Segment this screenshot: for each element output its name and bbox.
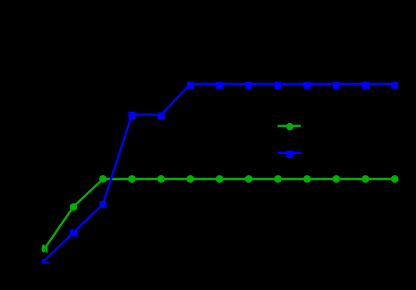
blue marker P9 [304,82,311,89]
green marker P8 [274,175,282,183]
blue marker P6 [216,82,223,89]
legend green marker [286,123,293,130]
green marker P5 [187,175,195,183]
legend blue marker [286,151,293,158]
blue marker P8 [274,82,281,89]
blue marker cluster P0 [42,259,49,263]
legend green sample line [278,125,301,127]
blue marker P1 [70,230,77,237]
green marker P9 [303,175,311,183]
blue marker P2 [99,201,106,208]
legend blue sample line [278,152,301,154]
green marker P4 [157,175,165,183]
blue marker P3 [128,112,135,119]
blue marker P10 [333,82,340,89]
blue marker P11 [362,82,369,89]
green marker P11 [362,175,370,183]
blue marker P7 [245,82,252,89]
green marker P6 [216,175,224,183]
blue marker P5 [187,82,194,89]
wire blue series polyline [44,84,394,261]
green marker P3 [128,175,136,183]
wire green series polyline [45,179,395,248]
green marker P1 [70,203,78,211]
green marker P7 [245,175,253,183]
green marker cluster P0 [42,245,48,253]
green marker P2 [99,175,107,183]
blue marker P4 [158,113,165,120]
green marker P12 [391,175,399,183]
green marker P10 [333,175,341,183]
blue marker P12 [391,82,398,89]
